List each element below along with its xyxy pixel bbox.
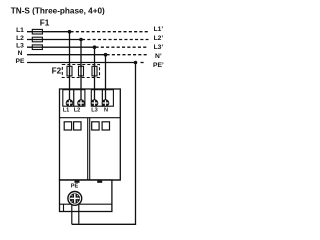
svg-text:N: N <box>104 107 108 113</box>
svg-text:L3: L3 <box>91 107 98 113</box>
module window 1 <box>64 122 71 130</box>
PE screw head <box>70 193 80 203</box>
terminal screw L2 <box>77 99 85 107</box>
release tab left <box>75 181 80 183</box>
device base strip line <box>60 203 112 205</box>
fuse F2c on L3 drop <box>92 66 97 76</box>
fuse F2b line through <box>80 65 82 78</box>
wire L3 solid <box>27 46 95 48</box>
PE screw knurl ticks <box>72 195 78 201</box>
junction dot L1 <box>68 30 72 34</box>
svg-text:N: N <box>18 50 23 57</box>
wire L1 solid <box>27 31 70 33</box>
svg-text:L1: L1 <box>63 107 70 113</box>
svg-text:L2: L2 <box>16 35 24 42</box>
wire vertical N drop <box>105 55 107 92</box>
junction dot N <box>104 53 108 57</box>
wire N into terminal <box>105 90 107 103</box>
fuse F2a line through <box>69 65 71 78</box>
wire N dashed <box>107 54 149 56</box>
svg-text:N’: N’ <box>155 53 162 60</box>
fuse F1b on L2 <box>32 37 42 42</box>
SPD device body lower <box>60 180 112 212</box>
wire PE dashed stub <box>141 62 146 64</box>
svg-text:L1’: L1’ <box>154 26 164 33</box>
fuse F2b on L2 drop <box>79 66 84 76</box>
wire vertical PE' drop <box>72 63 136 225</box>
terminal housing L3 <box>91 90 102 107</box>
svg-text:PE: PE <box>71 184 79 190</box>
junction dot L2 <box>79 38 83 42</box>
svg-text:F1: F1 <box>40 18 50 27</box>
svg-text:L3’: L3’ <box>154 44 164 51</box>
module window 4 <box>102 122 109 130</box>
fuse F2c line through <box>94 65 96 78</box>
wire L3 into terminal <box>94 90 96 103</box>
terminal housing L2 <box>74 90 85 107</box>
wire L2 into terminal <box>80 90 82 103</box>
PE screw outer <box>68 192 82 206</box>
svg-text:PE: PE <box>16 58 25 65</box>
svg-text:L2: L2 <box>74 107 81 113</box>
module window 3 <box>92 122 99 130</box>
wire vertical L2 drop <box>80 40 82 93</box>
terminal screw L3 <box>91 99 99 107</box>
PE clamp channel left <box>71 204 73 224</box>
svg-text:L3: L3 <box>16 43 24 50</box>
module slot wall right <box>89 118 91 180</box>
terminal housing N <box>102 90 113 107</box>
device lower divider line <box>60 179 121 181</box>
PE clamp channel right <box>78 204 80 224</box>
base strip divider <box>63 204 65 211</box>
junction dot L3 <box>93 45 97 49</box>
wire vertical L1 drop <box>69 32 71 92</box>
fuse F1a on L1 <box>32 29 42 34</box>
svg-text:L2’: L2’ <box>154 35 164 42</box>
SPD device body upper <box>60 89 121 180</box>
wire L1 dashed <box>71 31 149 33</box>
junction dot PE <box>134 61 138 65</box>
module slot wall left <box>87 118 89 180</box>
terminal screw N <box>102 99 110 107</box>
svg-text:L1: L1 <box>16 27 24 34</box>
device divider line <box>60 117 121 119</box>
fuse F2a on L1 drop <box>67 66 72 76</box>
wire L3 dashed <box>96 46 149 48</box>
wire L1 into terminal <box>69 90 71 103</box>
terminal screw L1 <box>66 99 74 107</box>
PE screw cross <box>71 194 79 202</box>
svg-text:TN-S (Three-phase, 4+0): TN-S (Three-phase, 4+0) <box>11 7 105 16</box>
terminal housing L1 <box>63 90 74 107</box>
fuse F1c on L3 <box>32 45 42 50</box>
wire L2 dashed <box>82 39 149 41</box>
svg-text:PE’: PE’ <box>153 62 164 69</box>
release tab right <box>97 181 102 183</box>
wire PE solid <box>27 62 136 64</box>
module window 2 <box>74 122 81 130</box>
svg-text:F2: F2 <box>52 66 62 75</box>
wire vertical L3 drop <box>94 47 96 92</box>
wire L2 solid <box>27 39 81 41</box>
fuse block F2 dashed box <box>62 65 99 78</box>
wire N solid <box>27 54 106 56</box>
